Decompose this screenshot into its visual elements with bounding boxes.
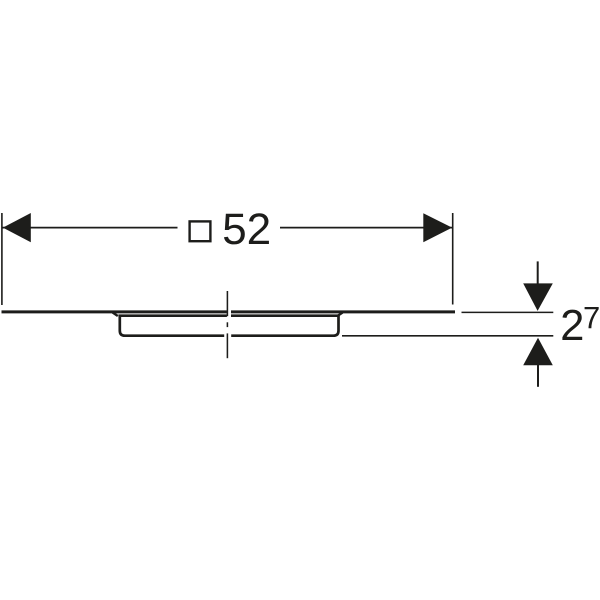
centerline dot xyxy=(226,322,228,327)
left step of cover xyxy=(113,313,118,317)
lower arrow tail xyxy=(537,364,539,387)
dimension line left segment xyxy=(2,227,177,229)
square symbol xyxy=(190,221,211,241)
right step of cover xyxy=(337,313,342,317)
centerline dash top xyxy=(226,291,228,316)
frame body rounded rect xyxy=(120,316,339,336)
extension line lower (height dim) xyxy=(342,335,553,337)
upper arrowhead xyxy=(523,283,553,311)
extension line left (width dim) xyxy=(1,213,3,305)
white gap at centerline bottom xyxy=(224,333,231,339)
label 52 xyxy=(224,213,269,244)
label 2 xyxy=(562,310,582,340)
extension line right (width dim) xyxy=(452,213,454,305)
white gap at centerline top xyxy=(227,310,231,319)
centerline dash bottom xyxy=(226,333,228,358)
extension line upper (height dim) xyxy=(462,311,554,313)
arrowhead right xyxy=(423,213,452,242)
product top surface line xyxy=(2,310,456,313)
arrowhead left xyxy=(3,213,31,242)
dimension line right segment xyxy=(280,227,452,229)
upper arrow tail xyxy=(537,261,539,284)
label superscript 7 xyxy=(585,307,599,328)
lower arrowhead xyxy=(523,338,553,366)
